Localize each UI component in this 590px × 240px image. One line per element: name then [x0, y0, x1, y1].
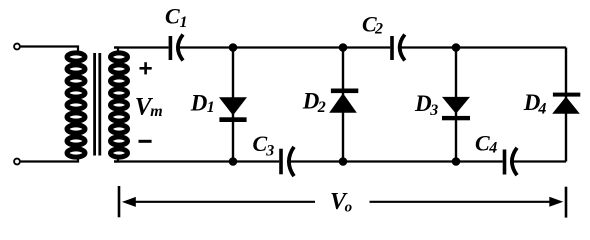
svg-text:1: 1: [207, 99, 215, 116]
svg-text:2: 2: [317, 99, 326, 116]
svg-text:o: o: [345, 200, 353, 216]
svg-text:3: 3: [429, 102, 438, 119]
svg-text:D: D: [190, 90, 208, 115]
svg-text:C: C: [165, 4, 180, 29]
svg-text:1: 1: [180, 14, 188, 31]
svg-text:2: 2: [374, 21, 383, 38]
svg-text:4: 4: [537, 100, 546, 117]
svg-text:3: 3: [265, 142, 274, 159]
svg-text:m: m: [150, 103, 162, 120]
svg-text:4: 4: [488, 139, 497, 156]
svg-text:C: C: [475, 130, 490, 155]
